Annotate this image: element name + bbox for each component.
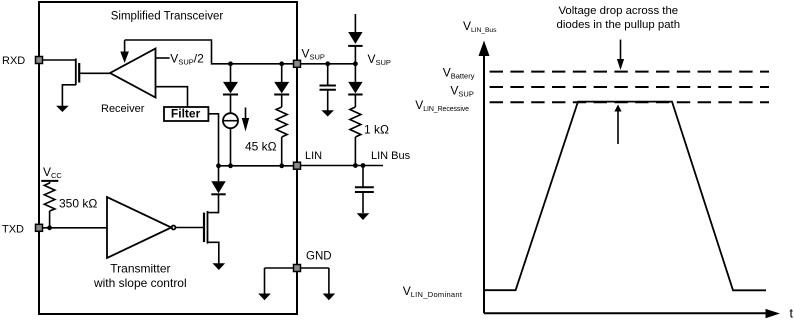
svg-text:VCC: VCC <box>43 165 62 180</box>
svg-text:Voltage drop across the: Voltage drop across the <box>558 5 678 17</box>
svg-text:TXD: TXD <box>2 223 24 235</box>
svg-text:LIN: LIN <box>305 150 322 162</box>
svg-text:VLIN_Bus: VLIN_Bus <box>463 19 497 34</box>
svg-text:1 kΩ: 1 kΩ <box>364 123 389 137</box>
svg-text:VSUP: VSUP <box>302 47 325 62</box>
svg-text:Transmitter: Transmitter <box>110 261 170 275</box>
svg-text:with slope control: with slope control <box>93 276 187 290</box>
svg-text:VBattery: VBattery <box>443 66 475 81</box>
svg-text:Filter: Filter <box>171 107 201 121</box>
svg-text:350 kΩ: 350 kΩ <box>59 197 97 211</box>
svg-text:diodes in the pullup path: diodes in the pullup path <box>557 19 681 31</box>
svg-text:t: t <box>790 307 794 321</box>
svg-text:GND: GND <box>306 251 332 263</box>
svg-text:Simplified Transceiver: Simplified Transceiver <box>111 10 224 22</box>
svg-text:VSUP: VSUP <box>368 52 391 67</box>
svg-text:LIN Bus: LIN Bus <box>371 150 411 162</box>
svg-text:45 kΩ: 45 kΩ <box>245 139 277 153</box>
svg-text:VLIN_Dominant: VLIN_Dominant <box>403 284 463 299</box>
svg-text:VSUP: VSUP <box>450 83 473 98</box>
svg-text:Receiver: Receiver <box>101 103 145 115</box>
svg-text:RXD: RXD <box>2 55 25 67</box>
svg-text:VSUP/2: VSUP/2 <box>170 52 204 67</box>
svg-text:VLIN_Recessive: VLIN_Recessive <box>415 98 469 113</box>
